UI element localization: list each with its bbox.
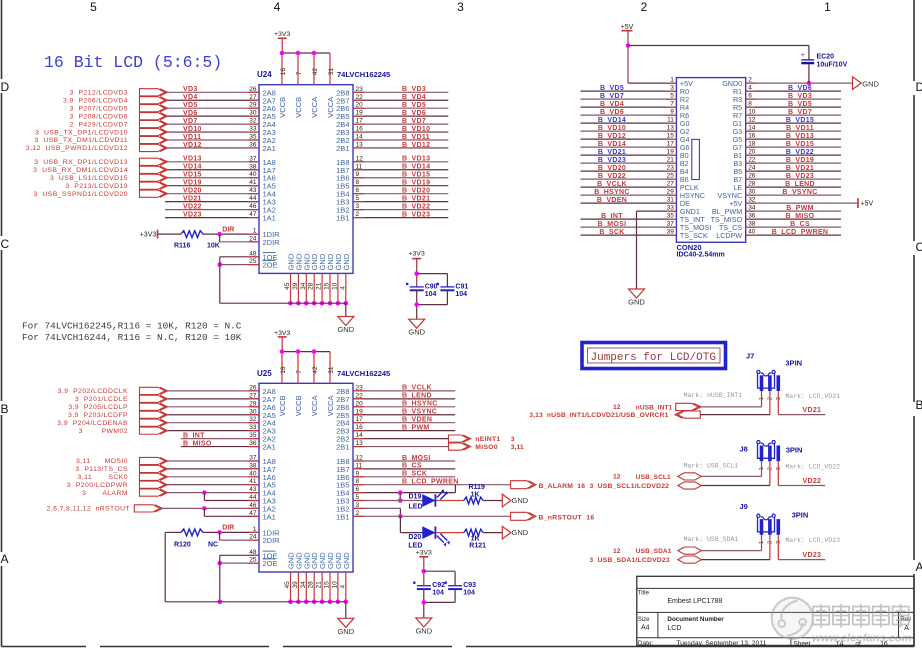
wire 2OE U25	[220, 562, 259, 564]
wire net B_VD14 to CON20	[581, 122, 677, 124]
resistor R120 NC	[181, 529, 203, 536]
svg-text:J9: J9	[740, 502, 748, 511]
svg-text:VD6: VD6	[183, 110, 198, 117]
svg-text:B_PWM: B_PWM	[402, 424, 430, 431]
svg-text:3 USB_TX_DM1/LCDVD11: 3 USB_TX_DM1/LCDVD11	[34, 137, 128, 144]
svg-text:3 USB_SSPND1/LCDVD20: 3 USB_SSPND1/LCDVD20	[34, 191, 128, 198]
svg-text:3 P201/LCDLE: 3 P201/LCDLE	[75, 396, 128, 403]
off-page connector MISO0	[449, 443, 469, 450]
junction 1B1	[398, 514, 403, 519]
svg-text:B_CS: B_CS	[402, 463, 422, 470]
svg-text:C92: C92	[432, 582, 445, 589]
wire net B_CS	[353, 468, 455, 470]
wire GND0 to ground arrow	[746, 82, 853, 84]
wire OE to GND rail	[219, 257, 221, 303]
junction	[312, 301, 317, 306]
wire to J7 pin 2	[769, 391, 771, 415]
junction	[312, 349, 317, 354]
svg-text:31: 31	[328, 68, 335, 76]
svg-text:NC: NC	[208, 541, 218, 548]
svg-text:Embest LPC1788: Embest LPC1788	[667, 598, 722, 605]
wire U25 input group2 row 1	[165, 460, 259, 462]
svg-text:1: 1	[824, 0, 831, 14]
junction	[312, 51, 317, 56]
svg-text:LCDPW: LCDPW	[716, 231, 742, 240]
wire net B_HSYNC to CON20	[581, 194, 677, 196]
svg-text:2DIR: 2DIR	[263, 536, 281, 545]
wire net B_CS from CON20	[746, 226, 841, 228]
wire net B_VD22 to CON20	[581, 178, 677, 180]
wire net B_VD3 from CON20	[746, 98, 841, 100]
svg-text:B_nRSTOUT 16: B_nRSTOUT 16	[539, 515, 595, 522]
jumper J7 3PIN	[758, 373, 775, 388]
wire to U24 GND symbol	[345, 303, 347, 316]
off-page connector nUSB_INT1/LCDVD21/USB_OVRCR1	[678, 411, 701, 418]
svg-text:GND: GND	[342, 552, 351, 569]
ground GND1	[629, 289, 645, 298]
off-page connector LCDFP	[140, 411, 166, 418]
junction DIR	[217, 232, 222, 237]
wire net B_VD10	[353, 131, 448, 133]
svg-text:3PIN: 3PIN	[786, 446, 803, 455]
wire net B_VD15 from CON20	[746, 146, 841, 148]
svg-text:104: 104	[463, 590, 475, 597]
svg-text:B_ALARM 16 3 USB_SCL1/LCDVD: B_ALARM 16 3 USB_SCL1/LCDVD22	[539, 483, 670, 490]
svg-text:USB_SCL1: USB_SCL1	[636, 474, 671, 481]
svg-text:USB_SDA1: USB_SDA1	[636, 548, 672, 555]
svg-text:B: B	[916, 398, 922, 412]
wire net B_MISO from CON20	[746, 218, 841, 220]
svg-text:R120: R120	[174, 541, 191, 548]
svg-text:VD23: VD23	[803, 552, 822, 559]
wire to J9 pin 2	[769, 535, 771, 560]
wire net B_VD3	[353, 91, 448, 93]
junction rail U25	[218, 600, 223, 605]
svg-text:For 74LVCH16244, R116 = N.C, R: For 74LVCH16244, R116 = N.C, R120 = 10K	[22, 332, 242, 343]
wire net B_VD23 to CON20	[581, 162, 677, 164]
wire net B_LCD_PWREN	[353, 484, 511, 486]
wire U25 input row 3	[165, 406, 259, 408]
svg-text:21: 21	[316, 581, 323, 589]
svg-text:B_VD23: B_VD23	[786, 173, 814, 180]
wire net B_VD7	[353, 123, 448, 125]
svg-text:+3V3: +3V3	[409, 251, 425, 258]
off-page connector USB_SCL1	[678, 473, 702, 480]
U25 VCC pin 42	[313, 352, 315, 384]
sheet border bottom	[2, 646, 87, 648]
svg-text:1K: 1K	[471, 491, 480, 498]
wire 1B4 to 1B3	[399, 493, 401, 501]
svg-text:GND: GND	[337, 627, 354, 636]
svg-text:VD21: VD21	[803, 407, 822, 414]
svg-text:34: 34	[300, 581, 307, 589]
svg-text:21: 21	[316, 282, 323, 290]
svg-text:3 P213/LCDVD19: 3 P213/LCDVD19	[65, 183, 128, 190]
wire net B_VD5 to CON20	[581, 90, 677, 92]
svg-text:B_VD21: B_VD21	[786, 165, 814, 172]
off-page connector nRSTOUT	[134, 505, 160, 512]
junction	[328, 301, 333, 306]
svg-text:2OE: 2OE	[263, 261, 278, 270]
wire net B_LEND from CON20	[746, 186, 841, 188]
svg-text:B_VD14: B_VD14	[402, 164, 430, 171]
svg-text:1B1: 1B1	[336, 214, 349, 223]
wire net B_VD15	[353, 177, 448, 179]
svg-text:3 USB_TX_DP1/LCDVD10: 3 USB_TX_DP1/LCDVD10	[35, 129, 128, 136]
wire net B_VD12 to CON20	[581, 138, 677, 140]
off-page connector nUSB_INT1	[676, 403, 699, 410]
wire net B_VD21	[353, 201, 448, 203]
svg-text:2 P429/LCDVD7: 2 P429/LCDVD7	[70, 121, 128, 128]
svg-text:12: 12	[613, 404, 621, 411]
svg-text:3,9 P205/LCDLP: 3,9 P205/LCDLP	[68, 404, 128, 411]
wire 1B4 row	[353, 492, 455, 494]
svg-text:31: 31	[328, 366, 335, 374]
capacitor C93 104	[448, 585, 462, 587]
svg-text:45: 45	[284, 581, 291, 589]
off-page connector P207/LCDVD5	[140, 105, 166, 112]
wire net VD4	[165, 99, 259, 101]
wire net VD3	[165, 91, 259, 93]
off-page connector LCDLE	[140, 395, 166, 402]
ground U24	[338, 317, 354, 326]
off-page connector B_nRSTOUT	[511, 512, 534, 520]
wire net B_VD5	[353, 107, 448, 109]
svg-text:3,9 P206/LCDVD4: 3,9 P206/LCDVD4	[63, 97, 128, 104]
wire cap top rail	[417, 273, 448, 275]
wire net VD11	[165, 139, 259, 141]
svg-text:3,9 P202/LCDDCLK: 3,9 P202/LCDDCLK	[58, 388, 128, 395]
wire to J8 pin 2	[769, 461, 771, 485]
wire +5V down	[627, 31, 629, 83]
wire U25 input group2 row 4	[165, 484, 259, 486]
svg-text:B_INT: B_INT	[601, 213, 623, 220]
watermark elecfans logo	[772, 598, 912, 645]
svg-text:10: 10	[331, 581, 338, 589]
svg-text:3PIN: 3PIN	[792, 511, 809, 520]
wire D20 to R121	[436, 532, 464, 534]
IC U24 74LVCH162245 body	[259, 85, 353, 274]
svg-text:3: 3	[457, 0, 464, 14]
junction	[304, 301, 309, 306]
svg-text:3,13 nUSB_INT1/LCDVD21/USB_OV: 3,13 nUSB_INT1/LCDVD21/USB_OVRCR1	[529, 412, 668, 419]
svg-text:VCCB: VCCB	[278, 395, 287, 416]
svg-text:GND: GND	[628, 298, 645, 307]
svg-text:2DIR: 2DIR	[263, 238, 281, 247]
svg-text:7: 7	[296, 370, 303, 374]
svg-text:Mark: LCD_VD22: Mark: LCD_VD22	[785, 463, 840, 470]
wire cap top rail C92/C93	[424, 570, 455, 572]
svg-text:LCD: LCD	[667, 625, 681, 632]
svg-text:B_VSYNC: B_VSYNC	[402, 409, 437, 416]
svg-text:1B1: 1B1	[336, 512, 349, 521]
svg-text:nUSB_INT1: nUSB_INT1	[636, 404, 673, 411]
svg-text:For 74LVCH162245,R116 = 10K, R: For 74LVCH162245,R116 = 10K, R120 = N.C	[22, 321, 242, 332]
IC U25 74LVCH162245 body	[259, 383, 353, 572]
svg-text:CON20: CON20	[677, 243, 702, 252]
svg-text:3PIN: 3PIN	[785, 359, 802, 368]
off-page connector PWM02	[140, 427, 166, 434]
off-page connector LCDLP	[140, 403, 166, 410]
wire net B_VD19	[353, 185, 448, 187]
wire nRSTOUT to pin 47	[203, 508, 205, 516]
U25 VCC pin 7	[297, 352, 299, 384]
wire R119 to GND	[483, 500, 502, 502]
svg-text:B_VD7: B_VD7	[600, 93, 624, 100]
svg-text:2B1: 2B1	[336, 443, 349, 452]
wire net B_VCLK to CON20	[581, 186, 677, 188]
svg-text:LED: LED	[409, 504, 423, 511]
wire net VD6	[165, 115, 259, 117]
svg-text:B_VDEN: B_VDEN	[402, 417, 432, 424]
svg-text:www.elecfans.com: www.elecfans.com	[812, 633, 912, 645]
off-page connector USB_PWRD1/LCDVD12	[140, 144, 166, 151]
wire net B_HSYNC	[353, 406, 455, 408]
svg-text:34: 34	[300, 282, 307, 290]
U25 VCC pin 16	[281, 352, 283, 384]
svg-text:3 P200/LCDPWR: 3 P200/LCDPWR	[67, 482, 128, 489]
svg-text:nEINT1: nEINT1	[475, 436, 500, 443]
svg-text:2OE: 2OE	[263, 559, 278, 568]
wire U25 GND rail	[165, 601, 346, 603]
svg-text:B_VDEN: B_VDEN	[597, 197, 627, 204]
off-page connector USB_LS1/LCDVD15	[140, 174, 166, 181]
svg-text:1A1: 1A1	[263, 512, 276, 521]
svg-text:Jumpers for LCD/OTG: Jumpers for LCD/OTG	[591, 352, 716, 364]
svg-text:B_LCD_PWREN: B_LCD_PWREN	[772, 229, 829, 236]
wire net B_SCK to CON20	[581, 234, 677, 236]
wire net B_INT to CON20	[581, 218, 677, 220]
junction DIR U25	[217, 530, 222, 535]
junction	[328, 600, 333, 605]
svg-text:B_HSYNC: B_HSYNC	[594, 189, 630, 196]
wire +5V to pin 1	[628, 82, 676, 84]
svg-text:28: 28	[308, 282, 315, 290]
svg-text:VD7: VD7	[183, 118, 198, 125]
svg-text:VD19: VD19	[183, 180, 202, 187]
off-page connector nEINT1	[449, 435, 469, 442]
wire net B_INT	[181, 438, 259, 440]
wire +5V rail to EC20	[628, 45, 809, 47]
wire net B_VD6	[353, 115, 448, 117]
svg-text:VD12: VD12	[183, 142, 202, 149]
resistor R119 1K	[464, 497, 483, 504]
svg-text:B_VD12: B_VD12	[598, 133, 626, 140]
svg-text:B_MISO: B_MISO	[183, 440, 212, 447]
power +5V right	[857, 198, 859, 208]
wire 1OE U25	[220, 554, 259, 556]
wire net B_VD13	[353, 161, 448, 163]
wire net B_VD6 from CON20	[746, 90, 841, 92]
svg-text:B_INT: B_INT	[183, 432, 205, 439]
wire net B_VD13 from CON20	[746, 138, 841, 140]
off-page connector LCDENAB	[140, 419, 166, 426]
svg-text:B_LCD_PWREN: B_LCD_PWREN	[402, 479, 459, 486]
svg-text:B_VD6: B_VD6	[402, 110, 426, 117]
svg-text:3 P208/LCDVD6: 3 P208/LCDVD6	[70, 113, 128, 120]
junction	[288, 301, 293, 306]
svg-text:2A1: 2A1	[263, 443, 276, 452]
ground after R119	[502, 494, 511, 507]
svg-text:B_VD23: B_VD23	[598, 157, 626, 164]
svg-text:C90: C90	[425, 283, 438, 290]
svg-text:3 USB_LS1/LCDVD15: 3 USB_LS1/LCDVD15	[50, 175, 128, 182]
junction	[288, 600, 293, 605]
svg-text:1A1: 1A1	[263, 214, 276, 223]
svg-text:VD21: VD21	[183, 195, 202, 202]
wire U25 input row 2	[165, 398, 259, 400]
svg-text:B: B	[1, 402, 9, 416]
svg-text:16 Bit LCD (5:6:5): 16 Bit LCD (5:6:5)	[44, 53, 222, 72]
svg-text:3 USB_RX_DP1/LCDVD13: 3 USB_RX_DP1/LCDVD13	[34, 159, 128, 166]
U25 VCC pin 31	[329, 352, 331, 384]
svg-text:Mark: USB_SDA1: Mark: USB_SDA1	[684, 536, 739, 543]
wire net B_VD5 from CON20	[746, 106, 841, 108]
junction	[336, 301, 341, 306]
svg-text:3,11: 3,11	[511, 444, 524, 451]
svg-text:B_VCLK: B_VCLK	[402, 385, 432, 392]
svg-text:B_VD20: B_VD20	[598, 165, 626, 172]
U24 VCC pin 31	[329, 53, 331, 85]
svg-text:B_HSYNC: B_HSYNC	[402, 401, 438, 408]
wire net VD13	[165, 161, 259, 163]
wire net B_VD19 from CON20	[746, 162, 841, 164]
svg-text:4: 4	[339, 585, 346, 589]
title block frame	[637, 576, 914, 645]
wire U25 input row 4	[165, 414, 259, 416]
svg-text:GND: GND	[342, 253, 351, 270]
svg-text:VD3: VD3	[183, 86, 198, 93]
off-page connector USB_RX_DP1/LCDVD13	[140, 158, 166, 165]
U24 VCC pin 16	[281, 53, 283, 85]
wire net VD10	[165, 131, 259, 133]
svg-text:3,12 USB_PWRD1/LCDVD12: 3,12 USB_PWRD1/LCDVD12	[26, 145, 128, 152]
wire EC20 to GND0 wire	[808, 64, 810, 83]
svg-text:B_VD19: B_VD19	[786, 157, 814, 164]
svg-text:+3V3: +3V3	[416, 550, 432, 557]
junction	[296, 301, 301, 306]
svg-text:45: 45	[284, 282, 291, 290]
wire net B_VDEN	[353, 422, 455, 424]
callout box Jumpers for LCD/OTG	[582, 343, 726, 369]
jumper J8 3PIN	[758, 443, 775, 458]
wire U25 input row 6	[165, 430, 259, 432]
wire caps bottom rail	[416, 290, 418, 319]
svg-text:B_VD22: B_VD22	[786, 149, 814, 156]
wire net B_VD23 from CON20	[746, 178, 841, 180]
svg-text:+3V3: +3V3	[274, 31, 290, 38]
junction	[344, 301, 349, 306]
wire net B_VD22	[353, 209, 448, 211]
off-page connector USB_RX_DM1/LCDVD14	[140, 166, 166, 173]
LED D19	[423, 495, 435, 506]
wire net VD19	[165, 185, 259, 187]
off-page connector P429/LCDVD7	[140, 121, 166, 128]
svg-text:3,11 MOSI0: 3,11 MOSI0	[76, 458, 128, 465]
wire net B_VSYNC from CON20	[746, 194, 841, 196]
wire net nEINT1	[353, 438, 449, 440]
junction	[336, 600, 341, 605]
svg-text:VCCB: VCCB	[294, 97, 303, 118]
svg-text:1K: 1K	[471, 536, 480, 543]
svg-text:B_LEND: B_LEND	[785, 181, 815, 188]
off-page connector MOSI0	[140, 457, 166, 464]
svg-text:3,11 SCK0: 3,11 SCK0	[78, 474, 128, 481]
svg-text:Mark: USB_SCL1: Mark: USB_SCL1	[684, 462, 739, 469]
svg-text:B_VD3: B_VD3	[402, 86, 426, 93]
wire R120 left leg to GND rail	[165, 531, 181, 533]
wire U25 input row 5	[165, 422, 259, 424]
wire R120 to 1DIR	[203, 531, 259, 533]
U24 VCC pin 42	[313, 53, 315, 85]
wire net B_VCLK	[353, 390, 455, 392]
capacitor C92 104	[417, 585, 431, 587]
junction C90 top	[414, 271, 419, 276]
svg-text:DIR: DIR	[222, 525, 234, 532]
svg-text:B_VD15: B_VD15	[402, 172, 430, 179]
svg-text:TS_SCK: TS_SCK	[680, 231, 708, 240]
svg-text:Mark: LCD_VD23: Mark: LCD_VD23	[785, 537, 840, 544]
wire net B_LEND	[353, 398, 455, 400]
svg-text:5: 5	[90, 0, 97, 14]
svg-text:Tuesday, September 13, 2011: Tuesday, September 13, 2011	[676, 640, 766, 647]
wire net B_VD6 to CON20	[581, 114, 677, 116]
svg-text:Date:: Date:	[638, 640, 654, 647]
svg-text:VCCA: VCCA	[326, 395, 335, 416]
svg-text:Title: Title	[638, 591, 650, 597]
svg-text:A: A	[916, 560, 922, 574]
svg-text:39: 39	[292, 581, 299, 589]
wire net B_VD14 to CON20	[581, 146, 677, 148]
svg-text:GND: GND	[862, 79, 879, 88]
svg-text:B_VD21: B_VD21	[598, 149, 626, 156]
ground C90/C91	[409, 319, 425, 328]
svg-text:D: D	[916, 80, 922, 94]
junction C92 bottom	[422, 600, 427, 605]
wire net B_VD21 from CON20	[746, 170, 841, 172]
svg-text:3 USB_SDA1/LCDVD23: 3 USB_SDA1/LCDVD23	[589, 557, 669, 564]
svg-text:B_VD15: B_VD15	[786, 117, 814, 124]
svg-text:B_VD4: B_VD4	[600, 101, 624, 108]
off-page connector LCDDCLK	[140, 387, 166, 394]
wire net B_VD4 to CON20	[581, 106, 677, 108]
svg-text:B_MOSI: B_MOSI	[402, 455, 431, 462]
svg-text:12: 12	[613, 474, 621, 481]
svg-text:74LVCH162245: 74LVCH162245	[337, 70, 390, 79]
wire net B_VD20	[353, 193, 448, 195]
wire net VD5	[165, 107, 259, 109]
wire R116 to 1DIR	[203, 233, 259, 235]
svg-text:B_VD20: B_VD20	[402, 187, 430, 194]
svg-text:B_CS: B_CS	[790, 221, 810, 228]
wire net VD20	[165, 193, 259, 195]
svg-text:B_VD3: B_VD3	[788, 93, 812, 100]
wire caps bottom rail C92/C93	[423, 589, 425, 618]
svg-text:B_VD10: B_VD10	[402, 126, 430, 133]
junction	[296, 51, 301, 56]
off-page connector USB_SSPND1/LCDVD20	[140, 190, 166, 197]
svg-text:VD23: VD23	[183, 211, 202, 218]
sheet border right	[913, 0, 915, 81]
svg-text:GND: GND	[337, 325, 354, 334]
wire U24 GND rail	[220, 302, 346, 304]
svg-text:15: 15	[324, 282, 331, 290]
off-page connector P213/LCDVD19	[140, 182, 166, 189]
junction +5V	[626, 43, 631, 48]
svg-text:3,9 P203/LCDFP: 3,9 P203/LCDFP	[68, 412, 128, 419]
off-page connector SCK0	[140, 473, 166, 480]
ground after R121	[502, 526, 511, 539]
